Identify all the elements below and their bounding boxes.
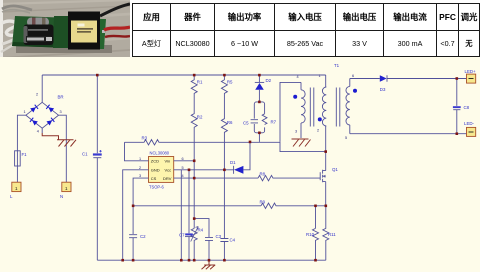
capacitor C2 [129,235,137,261]
ground (bottom rail) [202,260,216,269]
svg-text:4: 4 [297,75,299,79]
svg-text:3: 3 [139,174,141,178]
transformer core [310,88,340,127]
connector LED+ [467,74,476,83]
wire Vcc branch C7 [188,170,190,233]
svg-text:DRV: DRV [163,176,172,181]
transformer black frame [68,12,100,50]
wire CS pin3 [133,178,148,234]
svg-text:D1: D1 [230,160,236,165]
bridge rectifier BR [26,102,59,128]
svg-text:Q1: Q1 [332,167,338,172]
svg-text:L: L [10,194,13,199]
green PCB [12,16,104,49]
resistor R9 [261,203,326,208]
svg-text:D2: D2 [266,78,272,83]
wire C3 jog [194,219,209,238]
svg-text:C1: C1 [82,152,88,157]
wire Vin vertical down to R4 [193,161,195,229]
inductor cylinder [27,18,49,27]
snubber C5 R7 box [251,102,267,142]
svg-text:R3: R3 [142,135,148,140]
LED connector pin marks [469,79,474,133]
svg-text:GND: GND [151,168,160,173]
transformer T1 primary winding [322,75,326,152]
transformer yellow tape [71,21,97,43]
capacitor C8 [453,79,461,134]
resistor R4 [191,228,197,260]
junction dots red [96,74,458,262]
resistor R8 [258,175,320,180]
transistor Q1 [320,152,326,206]
svg-text:4: 4 [182,174,184,178]
resistor R11 [323,206,329,260]
white wires left [2,21,20,35]
connector J-L [12,182,21,191]
bridge diodes [30,104,55,125]
resistor R2 [191,95,197,161]
wire bottom rail [97,259,325,261]
wire secondary top to D3 [350,78,380,80]
svg-text:2: 2 [139,166,141,170]
svg-text:N: N [60,194,63,199]
wire secondary bottom [350,133,467,135]
svg-text:R5: R5 [227,80,233,85]
svg-text:2: 2 [317,129,319,133]
fuse F1 [15,151,21,183]
svg-text:5: 5 [345,136,347,140]
wire source node to R10 [315,206,317,229]
svg-text:1: 1 [24,110,26,114]
svg-text:4: 4 [37,130,39,134]
svg-text:R11: R11 [328,232,336,237]
electrolytic capacitor black with markings [24,25,54,46]
svg-text:C2: C2 [140,234,146,239]
svg-text:Vin: Vin [165,159,171,164]
wire CS line to R9 [133,205,261,207]
svg-text:R1: R1 [197,80,203,85]
svg-text:6: 6 [182,157,184,161]
svg-text:1: 1 [65,186,68,191]
svg-text:Vcc: Vcc [165,168,172,173]
svg-text:R8: R8 [260,172,266,177]
svg-text:C4: C4 [230,238,236,243]
wire bridge top stem [41,75,43,102]
svg-text:BR: BR [58,95,64,100]
capacitor C4 [220,239,228,261]
IC pin names inside [15,159,172,191]
svg-text:ZCD: ZCD [151,159,159,164]
svg-text:1: 1 [139,157,141,161]
resistor R5 [221,75,227,95]
resistor R10 [313,228,319,260]
transformer T1 aux winding [280,82,305,141]
svg-text:R2: R2 [197,115,203,120]
capacitor C3 [205,237,213,260]
wire top rail [42,74,326,76]
resistor R6 [221,95,227,238]
grey twisted wire top-left [2,6,32,10]
svg-text:NCL30080: NCL30080 [150,150,170,155]
wire ZCD pin1 [125,142,149,161]
svg-text:5: 5 [182,166,184,170]
svg-text:6: 6 [352,74,354,78]
svg-text:C7: C7 [179,233,185,238]
svg-text:TSOP-6: TSOP-6 [149,184,165,189]
wire bridge right to N [59,115,67,182]
svg-text:1: 1 [15,186,18,191]
parameter table [0,57,480,272]
black wire top right [100,4,130,16]
wire bridge left to fuse [17,115,26,151]
wire Vcc branch C6 [180,170,182,260]
svg-text:R6: R6 [227,120,233,125]
svg-text:1: 1 [319,74,321,78]
bottom shadow band [16,45,112,53]
resistor R3 [125,140,281,145]
svg-text:D3: D3 [380,87,386,92]
pin number labels [24,74,355,178]
svg-text:C8: C8 [464,105,470,110]
svg-text:R10: R10 [306,232,315,237]
svg-text:2: 2 [36,93,38,97]
connector J-N [62,182,71,191]
red wire [104,27,130,30]
connector LED- [467,127,476,136]
wire Vcc pin5 with D1 [174,169,234,171]
transformer T1 secondary winding [346,79,350,134]
resistor R1 [191,75,197,95]
svg-text:C3: C3 [216,234,222,239]
svg-text:LED+: LED+ [465,69,477,74]
svg-text:R7: R7 [271,120,277,125]
svg-text:T1: T1 [334,63,340,68]
wire GND pin2 [123,170,149,260]
svg-text:C5: C5 [243,121,249,126]
photo of LED driver PCB module [0,0,130,61]
solder pin right [102,30,105,33]
svg-text:R9: R9 [260,199,266,204]
svg-text:3: 3 [60,110,62,114]
capacitor C1 [93,75,102,260]
wire snubber junction [280,142,326,152]
svg-text:LED-: LED- [464,121,475,126]
capacitor C7 [185,233,193,260]
diode D1 [234,142,250,174]
ground (aux winding) [292,130,311,147]
wire DRV pin4 to R8 [174,177,258,179]
wire Vin pin6 [174,160,195,162]
svg-text:F1: F1 [22,152,28,157]
ground (bridge) [42,128,76,146]
IC U1 NCL30080 [149,157,174,183]
winding polarity dots [293,89,357,122]
diode D3 [380,75,467,82]
diode D2 [255,75,264,102]
svg-text:R4: R4 [198,228,204,233]
white left frame edge [0,0,3,61]
svg-text:CS: CS [151,176,157,181]
svg-text:3: 3 [295,129,297,133]
